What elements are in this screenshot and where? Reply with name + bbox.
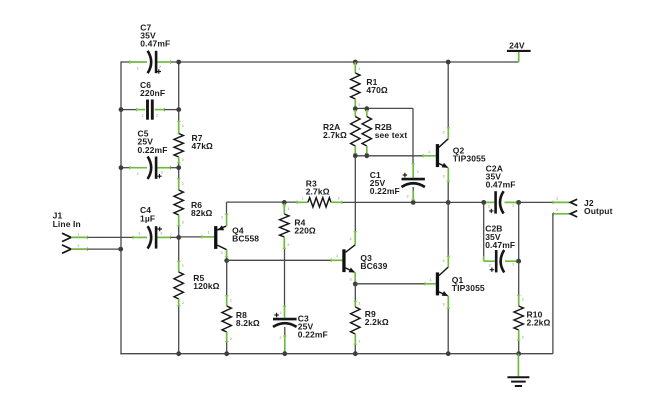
wire: node B down to Q3 collector (crosses output line) (354, 156, 356, 231)
wire: output node - R3 to C1 bottom junction (343, 201, 414, 203)
wire: node B (R2 bottoms / Q2 base / Q3 collector) (355, 155, 422, 157)
wire: left input/ground rail (121, 61, 130, 354)
wire: R10 column C2A junction down to C2B junction (518, 202, 520, 261)
wire: output node - to C2A left junction (448, 201, 484, 203)
wire: Q1 base from Q3 emitter node (355, 277, 436, 286)
transistor Q4 BC558 (PNP) (214, 225, 259, 249)
wire: output node - Q4 emitter corner to R3 (227, 201, 297, 203)
junction C2B.1 / R10 column (516, 259, 521, 264)
resistor R10 2.2k (514, 261, 551, 354)
capacitor C3 25V 0.22mF (electrolytic) (273, 306, 328, 354)
junction C6.2 / V2 (176, 107, 181, 112)
wire: R4 bottom to C3 (crosses Q3 base wire) (284, 249, 286, 306)
resistor R9 2.2k (351, 284, 389, 354)
capacitor C6 220nF (121, 80, 179, 120)
wire: R5 bottom to ground rail (178, 307, 180, 354)
transistor Q3 BC639 (NPN) (342, 245, 387, 273)
wire: divider column C7/C6 junction down to R7 (178, 62, 180, 121)
wire: output line to J2 pin1 (519, 196, 570, 205)
junction C3.2 / ground rail (282, 351, 287, 356)
wire: Q4 emitter up to output-feedback corner (221, 202, 228, 226)
resistor R1 470R (351, 62, 388, 109)
junction Q4 collector / R8 / Q3 base (224, 258, 229, 263)
wire: Q4 base from C4 node (179, 230, 215, 239)
transistor Q2 TIP3055 (NPN) (436, 139, 486, 168)
resistor R5 120k (174, 261, 220, 307)
capacitor C4 1uF (electrolytic) (133, 205, 179, 248)
junction C5.1 / left rail (119, 165, 124, 170)
junction Q2 collector column / top rail (446, 60, 451, 65)
wire: divider column R7 to C5 row (178, 164, 180, 168)
wire: Q3 base from Q4 collector node (227, 253, 343, 262)
resistor R3 2.7k (in output feedback line) (297, 178, 343, 207)
wire: +24V top rail (171, 61, 519, 63)
capacitor C2A 35V 0.47mF (electrolytic) (485, 163, 518, 213)
junction R9.2 / ground rail (353, 351, 358, 356)
junction C1.2 / output line (411, 200, 416, 205)
junction C2A.2 / C2B branch / output line (481, 200, 486, 205)
capacitor C5 25V 0.22mF (electrolytic) (121, 129, 179, 179)
junction R2A.2 / node B (353, 153, 358, 158)
junction C7.2 / V2 / top rail (176, 60, 181, 65)
junction C6.1 / left rail (119, 107, 124, 112)
wire: C2B branch down from C2A left junction (484, 202, 495, 261)
capacitor C7 35V 0.47mF (electrolytic) (130, 22, 171, 73)
junction R2B.2 / node B (364, 153, 369, 158)
wire: J1 pin2 to left rail (71, 247, 120, 251)
wire: Q2 base from node B (423, 149, 436, 158)
junction Q1 emitter / ground rail (446, 351, 451, 356)
junction R2B.1 / node A (364, 106, 369, 111)
wire: Q1 collector up to output line (443, 202, 451, 267)
junction R4 top / output line (282, 200, 287, 205)
wire: divider column C5 row to R6 (178, 168, 180, 178)
wire: Q1 emitter down to ground rail (443, 296, 451, 354)
wire: Q2 collector to top rail (443, 62, 451, 139)
svg-text:24V: 24V (509, 40, 525, 50)
wire: Q4 collector down to R8/Q3-base node (221, 250, 229, 261)
ground symbol (507, 354, 529, 386)
junction R1.1 / top rail (353, 60, 358, 65)
junction C4.2 / R6 / R5 / Q4 base node (176, 235, 181, 240)
resistor R2B (see text) (362, 110, 407, 155)
wire: node A (R1 bottom / R2 tops / C1 top feed) (355, 108, 413, 163)
junction R8.2 / ground rail (224, 351, 229, 356)
wire: J1 pin1 to C4 (71, 236, 133, 240)
wire: Q3 emitter to R9/Q1-base node (350, 272, 356, 284)
wire: node C4/R5 down to R5 (178, 237, 180, 260)
resistor R6 82k (174, 178, 213, 227)
capacitor C2B 35V 0.47mF (electrolytic) (485, 224, 517, 273)
resistor R4 220R (280, 204, 316, 250)
junction C2A.1 / R10 column / output line (516, 200, 521, 205)
transistor Q1 TIP3055 (NPN) (436, 267, 485, 296)
resistor R7 47k (174, 121, 213, 164)
junction J1.2 / left rail (118, 247, 123, 252)
power +24V supply symbol (507, 40, 531, 62)
wire: ground bottom rail (120, 353, 553, 355)
connector J2 Output (570, 198, 612, 217)
junction R10.2 / ground rail / ground symbol (516, 351, 521, 356)
junction R1.2 / R2A.1 (353, 106, 358, 111)
wire: Q3 collector up to node B column (350, 231, 358, 245)
wire: Q2 emitter down to output line (443, 167, 451, 202)
junction Q3 emitter / R9 / Q1 base (353, 282, 358, 287)
connector J1 Line In (53, 211, 81, 254)
resistor R2A 2.7k (323, 110, 360, 155)
capacitor C1 25V 0.22mF (electrolytic) (370, 163, 425, 201)
junction Q2 emitter / Q1 collector / output line (446, 200, 451, 205)
wire: output node - C1 junction to Q2e/Q1c junction (413, 201, 448, 203)
wire: J2 pin2 down to ground rail (553, 207, 570, 354)
resistor R8 8.2k (222, 261, 260, 354)
wire: divider column R6 to C4/Q4-base node (178, 227, 180, 238)
junction C5.2 / V2 (176, 165, 181, 170)
junction R5.2 / ground rail (176, 351, 181, 356)
